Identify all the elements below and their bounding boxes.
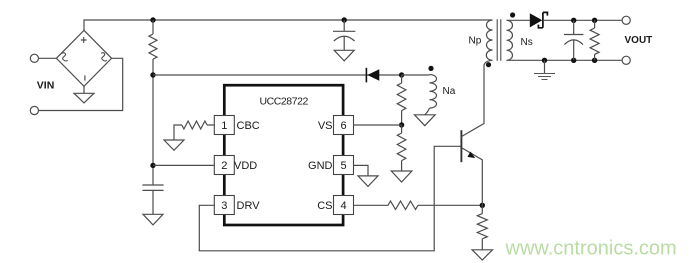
svg-text:GND: GND	[308, 160, 333, 172]
pin label CBC	[237, 120, 260, 132]
ground under R4	[164, 140, 184, 150]
node dot rail/C2	[342, 17, 347, 22]
wire DRV loop to base	[199, 146, 461, 251]
svg-text:4: 4	[340, 200, 346, 212]
bridge plus mark	[81, 37, 87, 43]
node dot VS	[399, 122, 404, 127]
svg-text:UCC28722: UCC28722	[260, 96, 309, 108]
pin 4 box	[334, 196, 354, 215]
bridge AC tilde right	[101, 53, 107, 61]
ground under bridge	[74, 86, 94, 103]
terminal J1 VIN+	[30, 54, 38, 62]
svg-text:3: 3	[221, 200, 227, 212]
pin label GND	[308, 160, 333, 172]
bridge AC tilde left	[62, 53, 68, 61]
resistor R4 CBC	[174, 121, 214, 140]
svg-text:www.cntronics.com: www.cntronics.com	[505, 238, 677, 260]
node dot emitter/CS	[480, 203, 485, 208]
node dot R7 bottom	[592, 58, 597, 63]
capacitor C3 output (polarized)	[564, 20, 583, 60]
wire VIN- to bridge right corner	[39, 58, 123, 110]
transistor Q1 collector	[461, 60, 492, 136]
resistor R2 VS upper divider	[397, 75, 406, 125]
node dot VDD	[150, 163, 155, 168]
svg-text:5: 5	[340, 160, 346, 172]
pin 2 box	[214, 156, 234, 175]
transformer secondary Ns	[507, 20, 513, 60]
node dot R7 top	[592, 18, 597, 23]
svg-text:VIN: VIN	[37, 80, 55, 92]
wire D2 to VOUT+	[543, 19, 622, 21]
node dot ground tap	[542, 58, 547, 63]
resistor R7 load	[590, 20, 599, 60]
terminal VOUT+	[622, 16, 630, 24]
svg-text:VS: VS	[318, 120, 333, 132]
diode D2 schottky output	[530, 12, 548, 27]
transistor Q1 emitter	[461, 148, 482, 206]
pin 1 box	[214, 116, 234, 135]
svg-text:6: 6	[340, 120, 346, 132]
ground at pin5	[358, 176, 378, 187]
watermark www.cntronics.com	[505, 238, 677, 260]
label Na	[443, 86, 456, 97]
pin 6 box	[334, 116, 354, 135]
svg-text:DRV: DRV	[237, 200, 261, 212]
ground under Na	[415, 115, 436, 126]
ground under C2	[334, 50, 354, 61]
wire VIN+ to bridge	[39, 57, 57, 59]
node dot D1/R2/Na	[399, 72, 404, 77]
bridge rectifier BR1 diamond	[56, 30, 111, 86]
node dot C3 bottom	[571, 58, 576, 63]
wire GND pin5 to ground	[354, 165, 369, 176]
transformer core	[497, 19, 501, 60]
svg-text:2: 2	[221, 160, 227, 172]
pin 3 box	[214, 196, 234, 215]
diode D1 (cathode left)	[366, 68, 379, 83]
inductor Na auxiliary winding	[430, 75, 437, 109]
label Ns	[521, 37, 533, 48]
bridge minus mark	[84, 75, 86, 80]
node dot C3 top	[571, 18, 576, 23]
resistor R6 current sense	[477, 205, 487, 250]
earth ground output	[534, 60, 555, 79]
pin 5 box	[334, 156, 354, 175]
label VIN	[37, 80, 55, 92]
wire VDD vertical line	[152, 75, 154, 185]
pin label CS	[317, 200, 332, 212]
wire Na to ground	[425, 108, 430, 115]
svg-text:1: 1	[221, 120, 227, 132]
terminal J2 VIN-	[30, 106, 38, 114]
terminal VOUT-	[622, 56, 630, 64]
svg-text:Ns: Ns	[521, 37, 533, 48]
label VOUT	[625, 35, 653, 46]
capacitor C2 input (polarized, top)	[333, 20, 355, 50]
resistor R3 VS lower divider	[397, 125, 406, 171]
pin label VDD	[234, 160, 257, 172]
resistor R5 CS	[354, 201, 483, 209]
resistor R1 startup (vertical, top-left)	[149, 20, 157, 75]
svg-text:CS: CS	[317, 200, 332, 212]
label UCC28722	[260, 96, 309, 108]
node dot rail/R1	[150, 17, 155, 22]
svg-text:VOUT: VOUT	[625, 35, 653, 46]
label Np	[469, 36, 482, 47]
pin label DRV	[237, 200, 261, 212]
phase dot Na	[428, 66, 433, 71]
svg-text:Na: Na	[443, 86, 456, 97]
wire Ns bottom rail	[507, 59, 623, 61]
phase dot Np	[486, 62, 491, 67]
svg-text:CBC: CBC	[237, 120, 260, 132]
wire Ns top to diode D2	[507, 19, 530, 21]
wire second rail to diode D1	[153, 74, 402, 76]
capacitor C1 VDD	[142, 185, 163, 214]
transformer T1 primary Np	[486, 20, 492, 60]
ground under R6	[472, 250, 492, 260]
node dot rail2	[150, 72, 155, 77]
IC U1 UCC28722 body	[224, 85, 343, 225]
wire node to Na winding	[402, 74, 430, 76]
phase dot Ns	[510, 12, 515, 17]
ground under R3	[391, 171, 412, 182]
svg-text:VDD: VDD	[234, 160, 257, 172]
ground under C1	[143, 214, 163, 225]
pin label VS	[318, 120, 333, 132]
transistor Q1 base bar	[460, 130, 462, 162]
wire VDD to pin2	[153, 164, 214, 166]
wire VS pin6 to divider	[354, 124, 402, 126]
svg-text:Np: Np	[469, 36, 482, 47]
wire top rail	[84, 20, 493, 30]
